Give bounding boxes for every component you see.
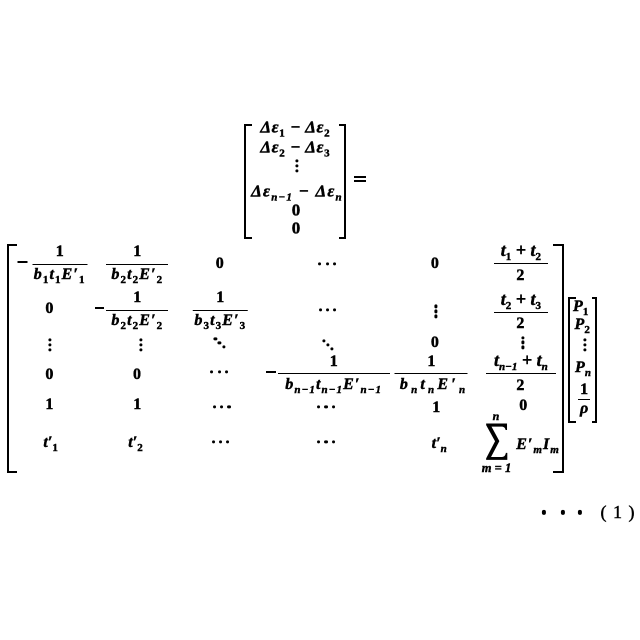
r3c4 ddots [323,339,334,350]
entry P1 [573,299,588,315]
r3c1 vdots [49,338,52,351]
r2c4 cdots [319,308,337,311]
r6c5 t'n [432,436,447,452]
row: delta-eps(n-1) - delta-eps(n) [251,183,343,200]
r2c1 zero [45,301,53,317]
row: 0 [292,202,301,219]
row: delta-eps1 - delta-eps2 [260,118,330,135]
right bracket of load vector [592,297,598,423]
row: 0 [292,220,301,237]
r2c2 fraction -1/(b2 t2 E'2) [106,310,168,311]
r2c6 fraction (t2+t3)/2 [494,312,548,313]
sigma lower limit m=1 [482,462,515,475]
r1c2 fraction 1/(b2 t2 E'2) [106,264,168,265]
row: delta-eps2 - delta-eps3 [260,139,330,156]
r4c4 fraction -1/(b(n-1) t(n-1) E'(n-1)) [278,373,390,374]
r4c1 zero [45,367,53,383]
dot 2 [561,510,565,514]
r1c1 fraction -1/(b1 t1 E'1) [32,264,87,265]
r2c5 vdots [434,305,437,318]
vdots [584,339,587,352]
right bracket of matrix [553,244,564,473]
left bracket of load vector [568,297,576,423]
r6c4 cdots [317,441,335,444]
r6c6 sigma symbol [485,422,508,461]
summand E'm Im [516,437,560,453]
r6c3 cdots [212,441,230,444]
left bracket of matrix [7,244,17,473]
r2c3 fraction 1/(b3 t3 E'3) [193,310,248,311]
entry 1/rho [578,399,590,400]
entry P2 [575,317,590,333]
r6c1 t'1 [43,435,57,451]
entry Pn [575,360,591,376]
r1c4 cdots [318,262,336,265]
r3c2 vdots [139,338,142,351]
sigma upper limit n [493,410,500,422]
r4c3 cdots [210,371,228,374]
r5c1 one [45,397,53,413]
r5c3 cdots [213,405,231,408]
vertical dots [295,159,298,172]
r5c5 one [432,400,440,416]
dot 3 [578,510,582,514]
r4c6 fraction (t(n-1)+tn)/2 [486,373,556,374]
equals sign [354,176,367,178]
left bracket of strain vector [244,124,253,239]
r3c5 zero [431,335,439,351]
r4c5 fraction 1/(bn tn E'n) [395,373,468,374]
right bracket of strain vector [339,124,346,239]
dot 1 [542,510,546,514]
r5c6 zero [519,398,527,414]
r1c6 fraction (t1+t2)/2 [494,263,548,264]
r3c6 vdots [521,336,524,349]
r5c4 cdots [317,405,335,408]
r4c2 zero [133,367,141,383]
r1c3 zero [216,256,224,272]
equation label (1) [601,503,635,521]
r5c2 one [133,397,141,413]
r6c2 t'2 [128,435,142,451]
r1c5 zero [431,256,439,272]
r3c3 ddots [214,338,225,349]
